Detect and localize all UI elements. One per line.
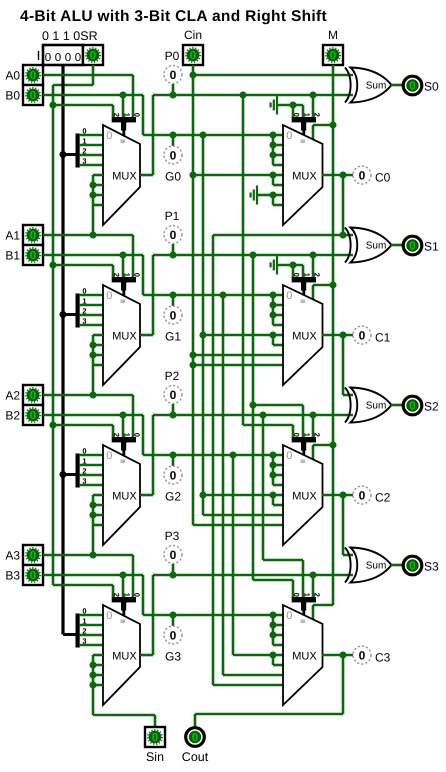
svg-text:S0: S0 [424,80,439,94]
svg-text:0: 0 [133,433,142,437]
svg-text:0: 0 [30,410,36,422]
svg-text:C1: C1 [375,331,391,345]
svg-text:2: 2 [112,593,121,597]
slice0 label G0 [165,170,181,184]
slice1 wire muxL col to next A [92,365,95,395]
slice2 junction muxL in5 [89,501,96,508]
slice3 label C3 [375,651,391,665]
slice0 splitter data bar [76,134,80,168]
slice0 wire G probe stub [172,135,175,146]
svg-text:MUX: MUX [112,651,137,663]
slice3 probe G3 [164,626,182,644]
slice0 wire leg1 [122,95,125,118]
slice1 wire C col down [342,335,345,395]
slice0 wire Cin to xor [193,74,353,77]
slice1 splitter data leg 2 [80,307,103,316]
slice2 wire G row [143,454,273,457]
svg-text:C0: C0 [375,171,391,185]
svg-text:0: 0 [170,68,177,82]
slice3 junction muxR in0 [269,611,276,618]
svg-text:B2: B2 [5,409,20,423]
svg-text:Cin: Cin [184,28,202,42]
slice3 wire M enable [313,605,333,619]
slice3 wire C0 to in7 [213,684,283,687]
slice0 wire G row [143,134,273,137]
slice0 junction in4 [269,171,276,178]
slice1 wire G row [143,294,273,297]
bus op-select black x=63 [61,65,64,635]
slice2 label C2 [375,491,391,505]
slice2 pin S2 [403,396,422,415]
svg-text:0: 0 [409,401,415,413]
svg-text:2: 2 [112,273,121,277]
slice0 label C0 [375,171,391,185]
slice3 wire leg1 [122,575,125,598]
slice3 wire G probe stub [172,615,175,626]
svg-text:3: 3 [82,317,86,326]
slice3 probe P3 [164,546,182,564]
slice3 junction muxL in6 [89,671,96,678]
svg-text:0: 0 [75,52,81,64]
slice0 wire muxL output [140,95,153,175]
slice0 label S0 [424,80,439,94]
slice2 wire SR row [53,425,113,438]
svg-text:MUX: MUX [112,491,137,503]
slice1 splitter data leg 3 [80,317,103,326]
slice1 wire G0 to in45 [203,335,283,345]
slice0 mux R (carry select) [283,125,323,225]
slice1 junction next A row [89,391,96,398]
label 0 1 1 0SR [42,29,98,43]
slice0 wire muxL col to next A [92,205,95,235]
slice1 junction P1 col start [249,251,256,258]
svg-text:1: 1 [122,593,131,597]
junction SR col slice1 [49,261,56,268]
svg-text:1: 1 [302,433,311,437]
slice2 wire A to leg0 [43,395,133,438]
slice2 wire B [43,414,143,417]
slice2 wire G probe stub [172,455,175,466]
slice3 wire P1 to leg0 [253,580,293,598]
slice0 wire P probe stub [172,84,175,95]
slice3 junction muxR in1 [269,621,276,628]
slice2 wire muxL output [140,415,153,495]
svg-text:1: 1 [302,273,311,277]
svg-text:0 1 1 0SR: 0 1 1 0SR [42,29,98,43]
slice3 wire xor out [391,564,403,567]
slice1 junction muxR in1 [269,301,276,308]
slice1 probe G1 [164,306,182,324]
svg-text:4-Bit ALU with 3-Bit CLA and R: 4-Bit ALU with 3-Bit CLA and Right Shift [20,8,327,25]
slice2 junction muxR in2 [269,471,276,478]
svg-text:0: 0 [409,81,415,93]
slice0 junction G0 col start [199,131,206,138]
slice3 junction muxL in7ext [89,681,96,688]
svg-text:2: 2 [313,273,322,277]
pin M [323,45,343,65]
slice2 pin A2 [23,385,43,405]
slice3 pin B3 [23,565,43,585]
slice2 junction muxL in6 [89,511,96,518]
svg-text:B1: B1 [5,249,20,263]
slice0 junction B leg1 [119,91,126,98]
slice1 wire leg1 [122,255,125,278]
slice1 junction muxL in5 [89,341,96,348]
slice2 splitter data leg 3 [80,477,103,486]
slice2 wire C col down [342,495,345,555]
slice3 mux L (P/G generator) [103,605,140,705]
svg-text:0: 0 [170,548,177,562]
slice1 wire muxL in4-7 col [93,335,103,365]
slice2 splitter data leg 0 [80,447,103,456]
slice3 wire B down [142,575,145,615]
slice0 probe G0 [164,146,182,164]
svg-text:0: 0 [82,287,86,296]
slice1 ground G1 (select) [271,256,277,275]
slice3 junction in4 [269,651,276,658]
junction SR col slice2 [49,421,56,428]
slice0 pin A0 [23,65,43,85]
svg-text:G1: G1 [165,330,181,344]
wire P2 column x=263 [262,415,265,560]
slice1 wire gnd select [277,265,303,278]
slice3 wire SR row [53,585,113,598]
slice2 wire G0 to in45 [203,495,283,505]
svg-text:2: 2 [313,593,322,597]
svg-text:G0: G0 [165,170,181,184]
svg-text:P0: P0 [165,49,180,63]
slice1 label C1 [375,331,391,345]
slice0 splitter data leg 3 [80,157,103,166]
slice1 pin A1 [23,225,43,245]
slice0 junction P select leg2 [309,91,316,98]
pin SR [83,45,103,65]
slice3 label S3 [424,560,439,574]
slice2 probe P2 [164,386,182,404]
slice3 xor gate Sum [345,548,392,583]
wire Cin column x=193 [192,65,195,525]
slice0 junction muxR in2 [269,151,276,158]
slice1 wire M enable [313,285,333,299]
svg-text:2: 2 [82,147,86,156]
slice3 junction P select leg2 [309,571,316,578]
wire SR pin stub [92,65,95,85]
slice3 splitter select R bar [292,593,322,616]
svg-text:0: 0 [292,273,301,277]
slice3 wire G1 to in6 [223,674,283,677]
slice1 junction G1 col start [219,291,226,298]
slice3 pin A3 [23,545,43,565]
svg-text:1: 1 [302,593,311,597]
slice0 junction C col [339,171,346,178]
svg-text:0: 0 [106,130,112,142]
svg-text:A2: A2 [5,389,20,403]
slice2 splitter select R bar [292,433,322,456]
svg-text:0: 0 [359,328,366,342]
slice0 wire muxL in4-7 col [93,175,103,205]
slice2 wire xor out [391,404,403,407]
slice0 pin S0 [403,76,422,95]
slice2 splitter select L bar [112,433,142,456]
wire P0 column x=243 [242,95,245,425]
svg-text:0: 0 [30,390,36,402]
slice0 wire M enable [313,125,333,139]
slice3 mux R (carry select) [283,605,323,705]
slice1 mux L (P/G generator) [103,285,140,385]
slice3 splitter data leg 0 [80,607,103,616]
slice1 splitter data stub [63,313,76,316]
junction SR col slice0 [49,101,56,108]
slice1 label B1 [5,249,20,263]
pin Sin stub [154,715,157,727]
slice0 junction P probe [169,91,176,98]
slice1 mux R (carry select) [283,285,323,385]
slice0 junction G probe [169,131,176,138]
svg-text:0: 0 [170,628,177,642]
wire Cin slice2 in7 corner [193,524,283,527]
slice3 wire G2 to in45 [233,655,283,665]
slice3 wire P row [153,574,353,577]
slice1 junction sel leg0 [289,261,296,268]
slice0 wire C out [322,174,353,177]
slice1 wire xor out [391,244,403,247]
pin Cin [183,45,203,65]
slice2 wire C to xor [343,394,353,397]
svg-text:0: 0 [170,148,177,162]
slice2 wire B down [142,415,145,455]
slice1 xor gate Sum [345,228,392,263]
slice2 wire sel leg2 [312,415,315,438]
svg-text:1: 1 [82,297,86,306]
slice0 xor gate Sum [345,68,392,103]
wire SR column x=53 [52,85,55,585]
label Cout [182,750,209,764]
wire G1 column x=223 [222,295,225,675]
svg-text:0: 0 [330,50,336,62]
slice1 wire P row [153,254,353,257]
slice0 pin B0 [23,85,43,105]
svg-text:3: 3 [82,477,86,486]
slice2 wire C out [322,494,353,497]
svg-text:Sum: Sum [366,241,387,252]
svg-text:1: 1 [122,433,131,437]
svg-text:0: 0 [30,570,36,582]
slice2 wire M enable [313,445,333,459]
slice3 probe C3 [353,646,371,664]
svg-text:2: 2 [313,113,322,117]
junction Cin MUX-R0 in45 [189,171,196,178]
wire C0 column x=213 [212,235,215,685]
slice0 wire Cin to in45 [193,175,283,185]
slice1 splitter data leg 1 [80,297,103,306]
svg-text:0: 0 [292,433,301,437]
slice0 junction muxL in5 [89,181,96,188]
slice1 pin B1 [23,245,43,265]
slice2 xor gate Sum [345,388,392,423]
slice2 wire leg1 [122,415,125,438]
slice2 probe G2 [164,466,182,484]
slice1 splitter select R bar [292,273,322,296]
wire G2 column x=233 [232,455,235,655]
svg-text:1: 1 [122,273,131,277]
slice2 junction P select leg2 [309,411,316,418]
slice1 junction P select leg2 [309,251,316,258]
slice1 wire Cin in6 [193,354,283,357]
slice2 mux L (P/G generator) [103,445,140,545]
wire SR to column [53,84,93,87]
svg-text:0: 0 [152,732,158,744]
slice0 wire A to leg0 [43,75,133,118]
slice3 wire C out [322,654,353,657]
slice3 wire muxR in col [273,615,283,645]
junction Cin MUX-R1 in6 [189,351,196,358]
slice3 splitter data leg 2 [80,627,103,636]
svg-text:P2: P2 [165,369,180,383]
svg-text:0: 0 [82,607,86,616]
slice2 junction P probe [169,411,176,418]
svg-text:2: 2 [82,627,86,636]
slice1 pin S1 [403,236,422,255]
svg-text:0: 0 [409,241,415,253]
slice1 wire C0 to xor [213,234,353,237]
slice2 label S2 [424,400,439,414]
svg-text:0: 0 [409,561,415,573]
svg-text:A3: A3 [5,549,20,563]
junction op bus slice0 [59,151,66,158]
slice0 junction P0 col start [239,91,246,98]
slice1 wire C out [322,334,353,337]
slice0 wire C col down [342,175,345,235]
svg-text:0: 0 [292,593,301,597]
slice0 splitter data leg 2 [80,147,103,156]
wire G0 slice2 in6 corner [203,514,283,517]
svg-text:Cout: Cout [182,750,209,764]
svg-text:0: 0 [286,290,292,302]
slice3 junction C col [339,651,346,658]
slice1 label S1 [424,240,439,254]
slice0 wire gnd to in67 [257,195,283,205]
svg-text:2: 2 [112,433,121,437]
slice2 junction G probe [169,451,176,458]
slice3 junction G probe [169,611,176,618]
slice2 mux R (carry select) [283,445,323,545]
slice2 junction M enable [329,441,336,448]
wire M column x=333 [332,65,335,605]
svg-text:1: 1 [302,113,311,117]
svg-text:0: 0 [106,290,112,302]
svg-text:1: 1 [82,457,86,466]
svg-text:MUX: MUX [292,331,317,343]
svg-text:0: 0 [170,468,177,482]
svg-text:0: 0 [133,273,142,277]
slice3 junction P probe [169,571,176,578]
svg-text:B3: B3 [5,569,20,583]
slice0 probe P0 [164,66,182,84]
svg-text:A1: A1 [5,229,20,243]
svg-text:S3: S3 [424,560,439,574]
slice3 wire C3 to Cout [195,655,343,727]
slice0 splitter data leg 0 [80,127,103,136]
svg-text:A0: A0 [5,69,20,83]
svg-text:Sin: Sin [146,750,164,764]
svg-text:0: 0 [30,250,36,262]
slice1 label A1 [5,229,20,243]
slice0 splitter select L bar [112,113,142,136]
slice3 junction B leg1 [119,571,126,578]
svg-text:0: 0 [106,450,112,462]
slice0 wire B down [142,95,145,135]
svg-text:B0: B0 [5,89,20,103]
slice0 junction M enable [329,121,336,128]
slice3 wire P2 to leg1 [263,560,303,598]
slice3 label G3 [165,650,181,664]
slice2 junction in4 [269,491,276,498]
svg-text:P3: P3 [165,529,180,543]
slice2 wire muxR in col [273,455,283,485]
svg-text:0: 0 [359,168,366,182]
slice1 junction muxR in0 [269,291,276,298]
svg-text:0: 0 [292,113,301,117]
svg-text:C3: C3 [375,651,391,665]
label Sin [146,750,164,764]
slice1 wire P probe stub [172,244,175,255]
slice3 label A3 [5,549,20,563]
slice1 label P1 [165,209,180,223]
slice3 wire B [43,574,143,577]
junction Cin XOR0 wire [189,71,196,78]
svg-text:0: 0 [359,648,366,662]
slice3 label B3 [5,569,20,583]
pin Cout [186,728,205,747]
slice1 label G1 [165,330,181,344]
slice0 wire P row [153,94,353,97]
junction G0 col slice2 in45 [199,491,206,498]
slice3 wire G row [143,614,273,617]
slice3 label P3 [165,529,180,543]
slice1 wire muxL output [140,255,153,335]
slice2 wire P1 to leg1 [253,405,303,438]
svg-text:S2: S2 [424,400,439,414]
slice2 wire muxL in4-7 col [93,495,103,525]
junction op bus slice2 [59,471,66,478]
slice2 splitter data leg 2 [80,467,103,476]
slice0 wire xor out [391,84,403,87]
svg-text:0: 0 [30,90,36,102]
slice0 junction muxR in1 [269,141,276,148]
slice1 junction M enable [329,281,336,288]
slice3 splitter data leg 1 [80,617,103,626]
svg-text:0: 0 [133,113,142,117]
slice1 wire SR row [53,265,113,278]
svg-text:G3: G3 [165,650,181,664]
slice0 probe C0 [353,166,371,184]
svg-text:MUX: MUX [292,491,317,503]
slice3 splitter data stub [63,633,76,636]
svg-text:0: 0 [133,593,142,597]
svg-text:0: 0 [45,52,51,64]
svg-text:1: 1 [122,113,131,117]
svg-text:0: 0 [170,228,177,242]
slice3 junction muxR in2 [269,631,276,638]
slice1 probe P1 [164,226,182,244]
junction P1 col slice2 leg1 [249,401,256,408]
slice1 probe C1 [353,326,371,344]
svg-text:MUX: MUX [292,171,317,183]
svg-text:0: 0 [170,308,177,322]
slice0 ground G1 (select) [271,96,277,115]
svg-text:3: 3 [82,157,86,166]
slice3 wire muxL col to Sin [93,685,155,715]
